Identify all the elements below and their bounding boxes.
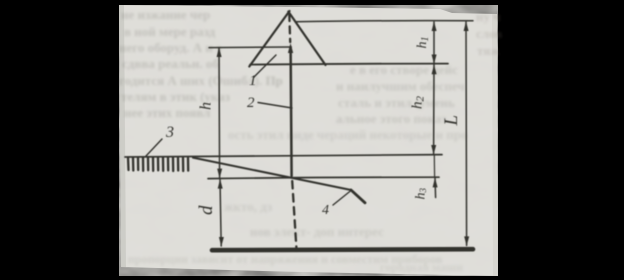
leader line for label 1: [254, 55, 276, 77]
dimension chain h1: [432, 21, 437, 64]
top reference line (apex level): [296, 21, 474, 22]
left reference line at arrow tip level: [209, 46, 291, 49]
paper edge shading: [119, 5, 126, 267]
svg-text:1: 1: [249, 73, 257, 89]
prism (triangle) 1: [249, 11, 325, 67]
refracted ray 4: [351, 190, 365, 203]
scanned paper sheet: [119, 5, 498, 276]
svg-text:d: d: [196, 205, 217, 215]
dimension L (right, total length): [464, 21, 470, 246]
svg-text:сдвва реальн. об: сдвва реальн. об: [122, 56, 219, 71]
svg-text:жкто, дз: жкто, дз: [224, 199, 272, 214]
svg-text:2: 2: [247, 95, 255, 111]
svg-text:4: 4: [322, 203, 329, 218]
svg-text:него оборуд. А и з: него оборуд. А и з: [119, 40, 221, 55]
faint bleed-through text (right margin fragments): [476, 9, 502, 58]
lower reference line: [208, 177, 439, 178]
leader line for label 2: [258, 103, 292, 109]
faint mid rows: [224, 127, 467, 239]
svg-text:альное этого показ: альное этого показ: [336, 111, 446, 126]
svg-text:3: 3: [165, 124, 174, 141]
svg-text:слов: слов: [476, 26, 502, 41]
svg-text:в ной мере разд: в ной мере разд: [124, 24, 216, 39]
svg-text:h: h: [198, 102, 215, 110]
prism base reference line: [250, 64, 448, 65]
object top reference line (through hatched bar top): [125, 155, 442, 157]
leader line for label 4: [333, 191, 351, 206]
svg-text:ость этил виде чераций некотор: ость этил виде чераций некоторые и про: [228, 127, 467, 142]
image arrow 2 (solid axis segment with up arrowhead): [291, 47, 292, 176]
dashed optical axis (below ray crossing): [292, 181, 296, 251]
svg-text:сталь и этил (умень: сталь и этил (умень: [338, 95, 455, 110]
dimension chain h2: [431, 65, 436, 155]
svg-text:не изжание чер: не изжание чер: [121, 7, 210, 22]
svg-text:городная маши: городная маши: [380, 260, 463, 274]
dimension h (left, object height): [217, 47, 223, 178]
incident ray from object: [193, 158, 351, 190]
svg-text:ну ч: ну ч: [476, 9, 501, 24]
dimension h3 (small, outside arrow below): [433, 155, 438, 198]
faint bleed-through text (left column): [119, 7, 283, 120]
thick bottom screen line: [212, 249, 473, 250]
svg-text:L: L: [441, 115, 462, 127]
svg-text:тяж: тяж: [477, 43, 500, 58]
svg-text:годится А ших (Ошибл). Пр: годится А ших (Ошибл). Пр: [119, 73, 283, 88]
leader line for label 3: [146, 139, 162, 156]
faint bottom rows: [128, 252, 463, 274]
svg-text:и наилучшим обеспеч: и наилучшим обеспеч: [336, 79, 465, 94]
dashed optical axis (inside prism): [288, 14, 291, 42]
dimension d (left, image distance): [218, 179, 224, 247]
svg-text:нов элект- доп интерес: нов элект- доп интерес: [250, 224, 384, 239]
hatched object bar 3: [128, 158, 188, 172]
svg-text:телям в этик (указ: телям в этик (указ: [121, 89, 230, 104]
